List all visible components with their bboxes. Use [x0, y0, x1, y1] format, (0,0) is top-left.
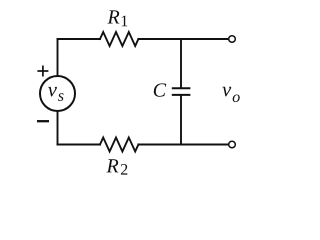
- wire: R1 to top-right terminal: [138, 38, 228, 40]
- label vs: [48, 87, 63, 101]
- wire: capacitor branch upper: [180, 39, 182, 88]
- wire: left vertical lower (source bottom to corner): [57, 111, 59, 145]
- label vo: [222, 87, 239, 102]
- capacitor C plates: [172, 88, 191, 95]
- label C: [154, 83, 166, 96]
- wire: R2 to bottom-right terminal: [138, 144, 228, 146]
- label R1: [107, 10, 127, 26]
- resistor R2: [100, 138, 138, 152]
- resistor R1: [100, 32, 138, 46]
- label R2: [106, 159, 127, 174]
- plus sign of source: [37, 66, 48, 77]
- wire: capacitor branch lower: [180, 96, 182, 145]
- wire: top-left from corner to R1: [58, 38, 101, 40]
- terminal bottom-right: [229, 141, 236, 148]
- wire: bottom-left from corner to R2: [58, 144, 101, 146]
- wire: left vertical upper (corner to source top): [57, 39, 59, 76]
- terminal top-right: [229, 36, 236, 43]
- minus sign of source: [37, 120, 49, 122]
- voltage source vs circle: [40, 76, 75, 111]
